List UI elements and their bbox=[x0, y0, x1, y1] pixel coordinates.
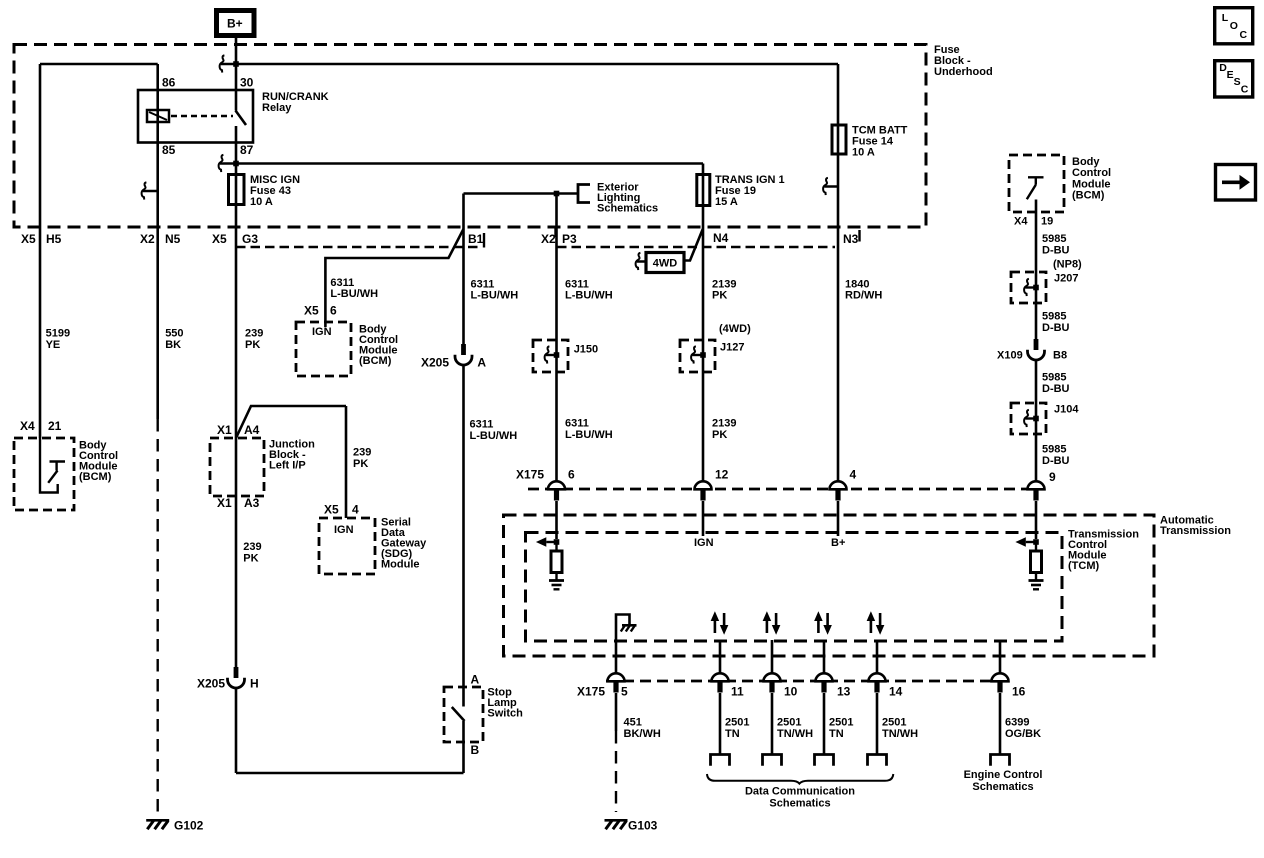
svg-text:239: 239 bbox=[353, 447, 371, 459]
svg-text:Data Communication: Data Communication bbox=[745, 786, 855, 798]
svg-text:G3: G3 bbox=[242, 232, 258, 246]
svg-text:(4WD): (4WD) bbox=[719, 323, 751, 335]
svg-text:D-BU: D-BU bbox=[1042, 455, 1070, 467]
svg-text:B: B bbox=[471, 743, 480, 757]
svg-text:X1: X1 bbox=[217, 423, 232, 437]
svg-text:C: C bbox=[1241, 84, 1249, 96]
svg-text:14: 14 bbox=[889, 685, 903, 699]
svg-text:5985: 5985 bbox=[1042, 444, 1066, 456]
svg-text:5199: 5199 bbox=[46, 328, 70, 340]
svg-text:D-BU: D-BU bbox=[1042, 383, 1070, 395]
svg-text:10 A: 10 A bbox=[852, 147, 875, 159]
svg-text:15 A: 15 A bbox=[715, 196, 738, 208]
svg-text:2139: 2139 bbox=[712, 418, 736, 430]
svg-text:L-BU/WH: L-BU/WH bbox=[330, 288, 378, 300]
svg-text:X205: X205 bbox=[421, 356, 449, 370]
svg-text:B1: B1 bbox=[468, 232, 484, 246]
svg-text:X2: X2 bbox=[140, 232, 155, 246]
svg-text:Underhood: Underhood bbox=[934, 66, 993, 78]
svg-text:19: 19 bbox=[1041, 216, 1053, 228]
svg-text:A: A bbox=[471, 673, 480, 687]
svg-text:J127: J127 bbox=[720, 342, 744, 354]
svg-text:PK: PK bbox=[353, 458, 368, 470]
svg-text:L-BU/WH: L-BU/WH bbox=[565, 429, 613, 441]
svg-text:H: H bbox=[250, 677, 259, 691]
svg-text:X1: X1 bbox=[217, 496, 232, 510]
svg-text:11: 11 bbox=[731, 685, 744, 699]
svg-text:10: 10 bbox=[784, 685, 798, 699]
svg-text:PK: PK bbox=[712, 429, 727, 441]
svg-text:239: 239 bbox=[243, 541, 261, 553]
svg-text:TN: TN bbox=[725, 728, 740, 740]
svg-text:IGN: IGN bbox=[334, 524, 354, 536]
svg-text:Relay: Relay bbox=[262, 102, 292, 114]
svg-text:IGN: IGN bbox=[312, 326, 332, 338]
svg-text:6: 6 bbox=[568, 468, 575, 482]
svg-text:Schematics: Schematics bbox=[597, 203, 658, 215]
svg-text:L: L bbox=[1222, 12, 1229, 24]
svg-text:E: E bbox=[1227, 69, 1234, 81]
svg-text:(NP8): (NP8) bbox=[1053, 259, 1082, 271]
svg-text:A: A bbox=[477, 356, 486, 370]
svg-text:J104: J104 bbox=[1054, 404, 1079, 416]
svg-text:(BCM): (BCM) bbox=[359, 355, 392, 367]
svg-text:X5: X5 bbox=[212, 232, 227, 246]
svg-text:5985: 5985 bbox=[1042, 311, 1066, 323]
svg-text:X5: X5 bbox=[21, 232, 36, 246]
svg-text:Left I/P: Left I/P bbox=[269, 460, 306, 472]
svg-text:X205: X205 bbox=[197, 677, 225, 691]
svg-text:X175: X175 bbox=[516, 468, 544, 482]
svg-text:A3: A3 bbox=[244, 496, 260, 510]
svg-text:2501: 2501 bbox=[829, 717, 853, 729]
svg-text:BK: BK bbox=[165, 339, 181, 351]
svg-text:5: 5 bbox=[621, 685, 628, 699]
svg-text:Control: Control bbox=[1072, 167, 1111, 179]
svg-text:6311: 6311 bbox=[565, 418, 589, 430]
svg-text:BK/WH: BK/WH bbox=[624, 728, 661, 740]
svg-text:B8: B8 bbox=[1053, 350, 1067, 362]
svg-text:TN/WH: TN/WH bbox=[777, 728, 813, 740]
svg-text:J150: J150 bbox=[574, 344, 598, 356]
svg-text:(BCM): (BCM) bbox=[1072, 190, 1105, 202]
svg-text:O: O bbox=[1230, 20, 1238, 32]
svg-text:(TCM): (TCM) bbox=[1068, 560, 1099, 572]
svg-text:5985: 5985 bbox=[1042, 372, 1066, 384]
svg-text:C: C bbox=[1240, 29, 1248, 41]
svg-text:4WD: 4WD bbox=[653, 258, 678, 270]
svg-text:239: 239 bbox=[245, 328, 263, 340]
svg-text:N4: N4 bbox=[713, 231, 729, 245]
svg-text:X109: X109 bbox=[997, 350, 1023, 362]
svg-text:B+: B+ bbox=[227, 17, 243, 31]
svg-text:G102: G102 bbox=[174, 819, 204, 833]
svg-text:N3: N3 bbox=[843, 232, 859, 246]
svg-text:D-BU: D-BU bbox=[1042, 245, 1070, 257]
svg-text:2501: 2501 bbox=[882, 717, 906, 729]
svg-text:X4: X4 bbox=[1014, 216, 1028, 228]
svg-text:550: 550 bbox=[165, 328, 183, 340]
svg-text:H5: H5 bbox=[46, 232, 62, 246]
svg-text:Body: Body bbox=[1072, 156, 1100, 168]
svg-text:TN/WH: TN/WH bbox=[882, 728, 918, 740]
svg-text:4: 4 bbox=[850, 468, 857, 482]
svg-text:6399: 6399 bbox=[1005, 717, 1029, 729]
svg-text:YE: YE bbox=[46, 339, 61, 351]
svg-text:87: 87 bbox=[240, 143, 254, 157]
svg-text:X4: X4 bbox=[20, 419, 35, 433]
svg-text:X5: X5 bbox=[324, 503, 339, 517]
svg-text:6311: 6311 bbox=[470, 419, 494, 431]
svg-text:Module: Module bbox=[381, 559, 420, 571]
svg-text:451: 451 bbox=[624, 717, 642, 729]
svg-text:4: 4 bbox=[352, 503, 359, 517]
svg-text:B+: B+ bbox=[831, 537, 845, 549]
svg-text:PK: PK bbox=[712, 289, 727, 301]
svg-text:(BCM): (BCM) bbox=[79, 471, 112, 483]
svg-text:G103: G103 bbox=[628, 819, 658, 833]
svg-text:2501: 2501 bbox=[777, 717, 801, 729]
svg-text:10 A: 10 A bbox=[250, 196, 273, 208]
svg-text:A4: A4 bbox=[244, 423, 260, 437]
svg-text:Schematics: Schematics bbox=[972, 781, 1033, 793]
svg-text:IGN: IGN bbox=[694, 537, 714, 549]
svg-text:S: S bbox=[1234, 76, 1241, 88]
svg-text:30: 30 bbox=[240, 76, 254, 90]
svg-text:16: 16 bbox=[1012, 685, 1026, 699]
svg-text:X5: X5 bbox=[304, 304, 319, 318]
svg-text:OG/BK: OG/BK bbox=[1005, 728, 1041, 740]
svg-text:P3: P3 bbox=[562, 232, 577, 246]
svg-text:PK: PK bbox=[245, 339, 260, 351]
svg-text:Schematics: Schematics bbox=[769, 798, 830, 810]
svg-text:5985: 5985 bbox=[1042, 233, 1066, 245]
svg-text:Module: Module bbox=[1072, 178, 1111, 190]
svg-text:Transmission: Transmission bbox=[1160, 525, 1231, 537]
svg-text:2501: 2501 bbox=[725, 717, 749, 729]
svg-text:86: 86 bbox=[162, 76, 176, 90]
svg-text:21: 21 bbox=[48, 419, 62, 433]
svg-text:L-BU/WH: L-BU/WH bbox=[565, 289, 613, 301]
svg-text:85: 85 bbox=[162, 143, 176, 157]
svg-text:N5: N5 bbox=[165, 232, 181, 246]
svg-text:L-BU/WH: L-BU/WH bbox=[471, 289, 519, 301]
svg-text:X2: X2 bbox=[541, 232, 556, 246]
svg-text:RD/WH: RD/WH bbox=[845, 289, 882, 301]
svg-text:Switch: Switch bbox=[487, 708, 523, 720]
svg-text:Engine Control: Engine Control bbox=[964, 769, 1043, 781]
svg-text:X175: X175 bbox=[577, 685, 605, 699]
svg-text:PK: PK bbox=[243, 553, 258, 565]
svg-text:13: 13 bbox=[837, 685, 851, 699]
svg-text:J207: J207 bbox=[1054, 273, 1078, 285]
svg-text:6: 6 bbox=[330, 304, 337, 318]
svg-text:L-BU/WH: L-BU/WH bbox=[470, 430, 518, 442]
svg-text:TN: TN bbox=[829, 728, 844, 740]
svg-text:D-BU: D-BU bbox=[1042, 322, 1070, 334]
svg-text:9: 9 bbox=[1049, 470, 1056, 484]
svg-text:12: 12 bbox=[715, 468, 729, 482]
